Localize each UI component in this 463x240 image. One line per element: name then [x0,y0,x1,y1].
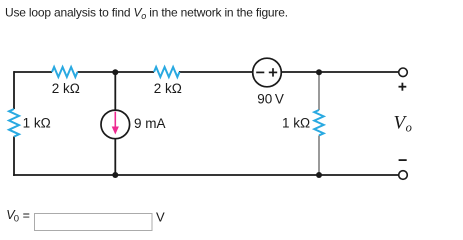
svg-text:=: = [23,209,30,223]
svg-text:1 kΩ: 1 kΩ [23,116,51,131]
svg-text:2 kΩ: 2 kΩ [52,81,80,96]
svg-text:1 kΩ: 1 kΩ [282,116,310,131]
svg-text:Use loop analysis to find Vo i: Use loop analysis to find Vo in the netw… [5,6,288,22]
svg-text:o: o [406,121,412,135]
svg-text:V: V [156,210,165,225]
svg-text:90 V: 90 V [257,92,284,107]
svg-text:0: 0 [14,214,19,225]
svg-text:9 mA: 9 mA [134,116,166,131]
svg-text:2 kΩ: 2 kΩ [154,81,182,96]
